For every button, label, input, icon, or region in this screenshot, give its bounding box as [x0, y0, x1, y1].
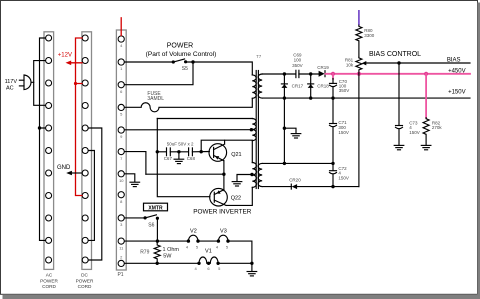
ground below heater rails [247, 272, 257, 276]
purple off-page wire [358, 10, 360, 25]
svg-text:C68: C68 [187, 156, 196, 161]
transformer T7 core [256, 71, 258, 189]
transistor Q21 [209, 140, 242, 161]
svg-text:CR19: CR19 [317, 65, 329, 70]
svg-text:117V: 117V [5, 79, 18, 85]
tube V2 heater [186, 228, 200, 249]
svg-text:V1: V1 [205, 249, 212, 255]
transformer T7 label [256, 54, 262, 59]
svg-text:+12V: +12V [58, 52, 72, 58]
ground below R82 [421, 145, 431, 149]
svg-text:5W: 5W [163, 254, 172, 260]
wire: LV secondary bottom lead [262, 185, 359, 188]
resistor R79 1 Ohm 5W [140, 241, 179, 265]
wire: V1 to ground drop [218, 262, 253, 272]
BIAS CONTROL label [369, 51, 421, 58]
AC power cord connector strip [40, 32, 58, 289]
svg-text:3AMDL: 3AMDL [147, 96, 164, 102]
svg-text:BIAS CONTROL: BIAS CONTROL [369, 51, 421, 58]
capacitor C67 [156, 148, 173, 161]
P1 connector strip [116, 30, 126, 278]
ground at drive winding center tap [232, 182, 242, 186]
svg-text:10k: 10k [346, 62, 354, 67]
svg-text:Q21: Q21 [231, 152, 241, 158]
diode CR18 [308, 74, 330, 98]
resistor R82 270k [423, 74, 442, 145]
capacitor C73 [396, 63, 420, 145]
capacitor C70 [330, 74, 350, 98]
wire: S5 output to transformer primary top, junction to pin 6 [125, 60, 253, 84]
svg-text:150V: 150V [338, 130, 349, 135]
wire: V3 to right-side drop [228, 241, 252, 263]
wire: P1 pin11 heater top rail [125, 239, 189, 242]
svg-text:150V: 150V [338, 176, 349, 181]
transistor Q22 [210, 188, 241, 206]
svg-text:S5: S5 [182, 66, 188, 72]
svg-text:270k: 270k [432, 125, 443, 130]
svg-text:DC: DC [81, 273, 88, 278]
svg-text:POWER: POWER [76, 278, 94, 283]
switch S6 [144, 215, 159, 229]
svg-text:C67: C67 [164, 156, 173, 161]
svg-text:V3: V3 [220, 228, 227, 234]
wire: P1 pin10 to chassis ground [125, 174, 140, 187]
node: drive winding center tap to ground [237, 173, 254, 182]
svg-text:XMTR: XMTR [148, 205, 163, 211]
fuse F1 3AMDL [125, 91, 253, 112]
BIAS wire [366, 58, 470, 65]
capacitor C72 [330, 163, 349, 186]
potentiometer R81 10k BIAS CONTROL [345, 57, 366, 74]
wire: P1 pin3 to switch S6 [125, 217, 145, 219]
capacitor C69 [292, 53, 303, 78]
svg-text:AC: AC [6, 85, 14, 91]
svg-text:(Part of Volume Control): (Part of Volume Control) [146, 51, 217, 58]
svg-text:T7: T7 [256, 54, 262, 59]
svg-text:+150V: +150V [448, 89, 466, 95]
svg-text:GND: GND [57, 165, 71, 171]
svg-text:CR17: CR17 [292, 83, 304, 88]
svg-text:1 Ohm: 1 Ohm [163, 247, 180, 253]
svg-text:POWER: POWER [167, 43, 193, 50]
wire: feedback riser (winding top to Q22 base) [157, 119, 210, 197]
diode CR20 [289, 177, 301, 189]
117V AC plug [5, 75, 34, 91]
svg-text:350V: 350V [339, 88, 350, 93]
POWER switch title [146, 43, 217, 58]
svg-text:CORD: CORD [78, 284, 92, 289]
wire: C69 to CR19 [299, 72, 319, 75]
+12V red feed wire on DC strip [58, 38, 82, 196]
svg-text:CR20: CR20 [289, 177, 301, 182]
svg-text:BIAS: BIAS [447, 58, 461, 64]
T7 LV secondary winding (lower right) [258, 163, 262, 186]
wire: P1 pin9 to feedback winding center tap [125, 128, 253, 131]
wire: LV rectifier output riser to +450V rail [358, 74, 360, 187]
svg-text:Q22: Q22 [231, 196, 241, 202]
XMTR label box [144, 203, 168, 211]
wire: Q22 emitter to drive winding bottom [226, 187, 252, 205]
T7 primary winding (top left) [252, 75, 256, 98]
tube V3 heater [216, 228, 230, 249]
svg-text:V2: V2 [190, 228, 197, 234]
wire: feedback winding top lead [157, 118, 252, 120]
svg-text:10: 10 [119, 178, 124, 183]
svg-text:POWER: POWER [40, 278, 58, 283]
wire: Q21 collector rail to feedback winding bottom / drive winding top [201, 140, 252, 162]
svg-text:AC: AC [46, 273, 53, 278]
wire: plug bracket to AC pins 2 and 4 [34, 61, 46, 106]
svg-text:R79: R79 [140, 250, 149, 256]
svg-text:CR18: CR18 [317, 83, 329, 88]
diode CR19 [317, 65, 329, 77]
svg-text:+450V: +450V [448, 68, 466, 74]
capacitor C68 [187, 148, 210, 161]
switch S5 [172, 59, 188, 72]
wire: secondary common with ground tap [283, 98, 301, 163]
svg-text:150V: 150V [409, 130, 420, 135]
svg-text:S6: S6 [148, 222, 154, 228]
tube V1 heater (center tapped) [194, 249, 221, 271]
ground between C67 and C68 [170, 150, 188, 164]
svg-text:350V: 350V [292, 63, 303, 68]
T7 feedback winding (middle left, center tapped) [252, 119, 256, 141]
wire: AC strip jumper pin1 to pin10 [38, 38, 46, 240]
wire: S6 to heater rail [156, 218, 158, 241]
label 50uF 50V x 2 [167, 141, 194, 146]
red stub into P1 pin 4 [120, 18, 122, 36]
diode CR17 [281, 74, 303, 98]
wire: P1 pin2 heater bottom rail [125, 262, 199, 264]
wire: DC strip jumper pin6 to pin10 [89, 151, 95, 241]
ground below C73 [394, 145, 404, 149]
wire: P1 pin7 down to inverter common rail [125, 152, 146, 175]
svg-text:P1: P1 [117, 272, 123, 278]
wire: DC strip jumper pin5 to pin11 [89, 128, 102, 260]
resistor R80 3300 [356, 25, 375, 57]
wire: LV secondary top lead [262, 162, 334, 165]
svg-text:3300: 3300 [364, 33, 375, 38]
T7 inverter drive winding (lower left, center tapped) [252, 163, 256, 188]
wire: HV secondary top lead [262, 72, 296, 75]
wire: Q21 emitter to Q22 collector [223, 161, 225, 191]
svg-text:50uF 50V x 2: 50uF 50V x 2 [167, 141, 194, 146]
svg-text:CORD: CORD [42, 284, 56, 289]
DC power cord connector strip [76, 32, 94, 289]
+450V pink rail [326, 68, 471, 76]
GND arrow at DC pin 7 [57, 165, 82, 175]
POWER INVERTER label [193, 209, 251, 216]
T7 HV secondary winding (top right) [258, 74, 262, 98]
capacitor C71 [330, 98, 349, 163]
+150V rail wire [262, 89, 470, 99]
wire: inverter common rail (S6 riser to Q21/Q22 junction) [146, 173, 226, 176]
wire: P1 pin1 to switch S5 [125, 61, 174, 63]
wire: V2 to V3 [198, 240, 218, 242]
svg-text:POWER INVERTER: POWER INVERTER [193, 209, 251, 216]
